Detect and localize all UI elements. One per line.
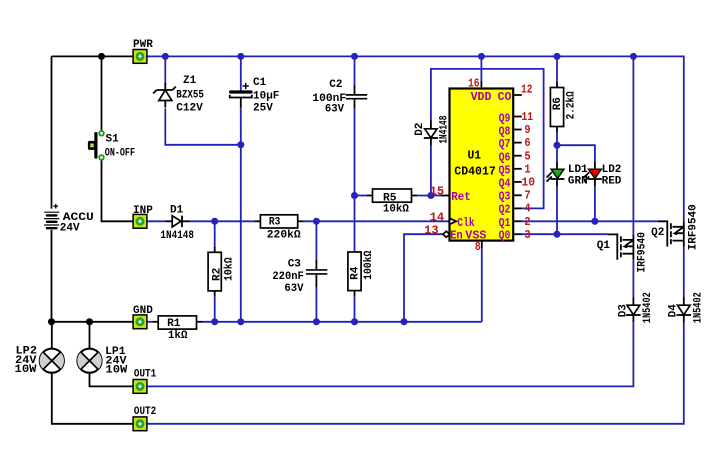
svg-text:Q9: Q9 (499, 111, 511, 125)
svg-text:BZX55: BZX55 (176, 89, 204, 101)
svg-text:1N5402: 1N5402 (642, 292, 654, 323)
svg-text:2: 2 (524, 215, 530, 229)
svg-text:Q0: Q0 (499, 229, 511, 243)
svg-text:Q7: Q7 (499, 137, 511, 151)
svg-text:1N4148: 1N4148 (160, 230, 194, 242)
svg-text:C12V: C12V (176, 103, 203, 115)
svg-text:VSS: VSS (465, 229, 486, 243)
svg-text:10W: 10W (15, 364, 37, 376)
svg-text:ON-OFF: ON-OFF (105, 148, 135, 160)
svg-text:Q6: Q6 (499, 150, 511, 164)
svg-text:4: 4 (524, 202, 530, 216)
svg-text:15: 15 (430, 185, 445, 199)
svg-text:63V: 63V (284, 283, 304, 295)
svg-text:C2: C2 (329, 79, 342, 91)
svg-text:16: 16 (468, 77, 480, 91)
svg-text:R4: R4 (350, 266, 362, 280)
svg-text:Q2: Q2 (651, 227, 664, 239)
svg-text:10W: 10W (105, 364, 127, 376)
svg-text:11: 11 (522, 110, 534, 124)
svg-text:1N5402: 1N5402 (692, 292, 704, 323)
svg-text:Z1: Z1 (183, 75, 197, 87)
svg-text:D3: D3 (617, 304, 629, 318)
svg-text:13: 13 (424, 223, 439, 237)
svg-text:Q1: Q1 (597, 240, 611, 252)
svg-text:25V: 25V (253, 103, 273, 115)
svg-text:3: 3 (524, 228, 530, 242)
svg-text:Q4: Q4 (499, 177, 511, 191)
svg-text:1: 1 (524, 163, 530, 177)
svg-text:10kΩ: 10kΩ (224, 257, 236, 281)
svg-text:Q2: Q2 (499, 203, 511, 217)
svg-text:2.2kΩ: 2.2kΩ (565, 91, 577, 119)
svg-text:R3: R3 (269, 217, 281, 229)
svg-text:6: 6 (524, 136, 530, 150)
svg-text:D4: D4 (668, 304, 680, 318)
svg-text:INP: INP (133, 205, 153, 217)
svg-text:7: 7 (524, 188, 530, 202)
svg-text:OUT2: OUT2 (134, 406, 156, 418)
svg-text:U1: U1 (468, 149, 482, 163)
svg-text:Q5: Q5 (499, 164, 511, 178)
svg-text:5: 5 (524, 149, 530, 163)
svg-text:VDD: VDD (471, 90, 492, 104)
svg-text:IRF9540: IRF9540 (688, 204, 700, 250)
svg-text:100kΩ: 100kΩ (363, 250, 375, 280)
svg-text:10kΩ: 10kΩ (383, 204, 409, 216)
svg-text:En: En (450, 229, 463, 243)
svg-text:GRN: GRN (568, 176, 588, 188)
svg-text:C3: C3 (288, 259, 302, 271)
svg-text:D2: D2 (414, 123, 426, 136)
svg-text:220kΩ: 220kΩ (267, 229, 301, 241)
svg-text:RED: RED (602, 176, 622, 188)
svg-text:CO: CO (498, 90, 512, 104)
svg-text:10µF: 10µF (253, 90, 279, 102)
svg-text:24V: 24V (60, 222, 80, 234)
svg-text:LD2: LD2 (602, 164, 622, 176)
svg-text:10: 10 (522, 176, 536, 190)
svg-text:1kΩ: 1kΩ (168, 330, 188, 342)
svg-text:CD4017: CD4017 (454, 164, 496, 178)
svg-text:Q8: Q8 (499, 124, 511, 138)
svg-text:D1: D1 (170, 204, 184, 216)
svg-text:R5: R5 (383, 192, 397, 204)
svg-text:220nF: 220nF (272, 271, 303, 283)
svg-text:R1: R1 (167, 318, 181, 330)
svg-text:IRF9540: IRF9540 (636, 232, 648, 272)
svg-text:Q3: Q3 (499, 189, 511, 203)
svg-text:9: 9 (524, 123, 530, 137)
svg-text:R2: R2 (212, 268, 224, 281)
svg-text:PWR: PWR (133, 39, 153, 51)
svg-text:R6: R6 (552, 97, 564, 110)
svg-text:GND: GND (133, 305, 153, 317)
svg-text:S1: S1 (106, 134, 120, 146)
svg-text:C1: C1 (253, 77, 267, 89)
svg-text:Ret: Ret (451, 190, 471, 204)
svg-text:LD1: LD1 (568, 164, 588, 176)
svg-text:12: 12 (521, 83, 533, 97)
svg-text:63V: 63V (325, 104, 345, 116)
svg-text:14: 14 (430, 211, 445, 225)
svg-text:OUT1: OUT1 (134, 369, 157, 381)
